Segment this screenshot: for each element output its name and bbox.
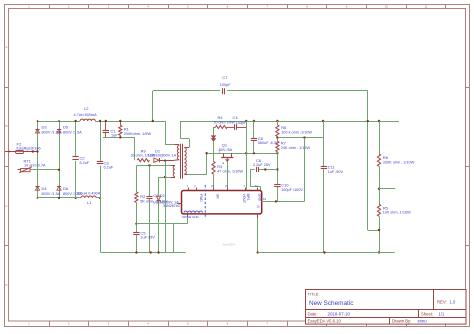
svg-text:2: 2	[194, 185, 196, 188]
svg-text:1uF 25V: 1uF 25V	[140, 236, 155, 240]
svg-text:R1: R1	[124, 127, 130, 132]
svg-text:1.0: 1.0	[450, 299, 456, 304]
svg-text:100pF: 100pF	[236, 121, 246, 125]
svg-text:1,US1M(800V, 1A: 1,US1M(800V, 1A	[148, 154, 177, 158]
svg-text:23: 23	[211, 185, 214, 188]
svg-text:11: 11	[424, 4, 427, 8]
svg-text:800V /1.5A: 800V /1.5A	[42, 192, 61, 196]
svg-text:Sheet:: Sheet:	[421, 311, 433, 316]
svg-text:800V /1.5A: 800V /1.5A	[63, 131, 82, 135]
svg-text:24K ohm , 1/16W: 24K ohm , 1/16W	[281, 146, 311, 150]
svg-text:VOUT: VOUT	[242, 194, 246, 203]
svg-text:100pF: 100pF	[220, 83, 231, 87]
svg-text:FWD: FWD	[199, 194, 203, 202]
svg-text:srinu: srinu	[418, 319, 428, 324]
svg-text:R8: R8	[383, 155, 389, 160]
svg-text:D5: D5	[63, 125, 69, 130]
svg-text:Date:: Date:	[308, 311, 318, 316]
svg-text:INN2674C: INN2674C	[164, 204, 181, 208]
svg-text:D3: D3	[42, 125, 48, 130]
svg-text:D2: D2	[160, 193, 166, 198]
svg-text:15: 15	[256, 204, 260, 208]
svg-text:1/1: 1/1	[439, 311, 445, 316]
svg-text:4.7uH 600mA: 4.7uH 600mA	[74, 113, 98, 117]
svg-text:800V /1.5A: 800V /1.5A	[42, 131, 61, 135]
svg-text:2018-07-10: 2018-07-10	[328, 311, 351, 316]
svg-text:100 ohm, 1/16W: 100 ohm, 1/16W	[383, 211, 411, 215]
svg-text:BPS: BPS	[246, 194, 250, 202]
svg-text:6.2uF: 6.2uF	[104, 166, 114, 170]
svg-text:5: 5	[187, 322, 189, 326]
svg-text:4: 4	[244, 185, 246, 188]
svg-text:EasyEDA V5.6.10: EasyEDA V5.6.10	[308, 319, 342, 324]
svg-text:RT1: RT1	[24, 158, 32, 163]
svg-text:L1: L1	[87, 200, 92, 205]
svg-text:10: 10	[385, 4, 389, 8]
svg-text:Drawn By:: Drawn By:	[392, 319, 411, 324]
svg-text:EasyEDA: EasyEDA	[223, 242, 236, 246]
svg-text:2.2uF 25V: 2.2uF 25V	[253, 163, 271, 167]
svg-text:6.2uF: 6.2uF	[80, 161, 90, 165]
svg-text:SD/SR GND: SD/SR GND	[182, 215, 200, 219]
svg-text:100uH 0.490A: 100uH 0.490A	[76, 191, 101, 195]
svg-text:200Kohm, 1/8W: 200Kohm, 1/8W	[124, 132, 152, 136]
svg-text:1: 1	[28, 322, 30, 326]
svg-text:REV:: REV:	[437, 299, 447, 304]
svg-text:C4: C4	[233, 115, 239, 120]
svg-text:Q1: Q1	[222, 143, 228, 148]
svg-text:R7: R7	[281, 140, 287, 145]
svg-text:D4: D4	[42, 186, 48, 191]
svg-text:100 k ohm ,1/10W: 100 k ohm ,1/10W	[281, 131, 312, 135]
svg-text:C7: C7	[222, 75, 228, 80]
svg-text:4: 4	[147, 322, 149, 326]
svg-text:3: 3	[108, 322, 110, 326]
svg-text:fuseRg2(F396: fuseRg2(F396	[17, 147, 41, 151]
svg-text:New Schematic: New Schematic	[309, 300, 354, 307]
svg-text:4: 4	[222, 162, 224, 166]
svg-text:2: 2	[218, 150, 220, 154]
svg-text:A: A	[5, 45, 7, 49]
svg-text:1uF ,50V: 1uF ,50V	[328, 170, 344, 174]
svg-text:C11: C11	[328, 164, 336, 169]
svg-text:1: 1	[187, 185, 189, 188]
svg-text:R4: R4	[218, 115, 224, 120]
svg-text:R5: R5	[383, 205, 389, 210]
svg-text:B: B	[5, 124, 7, 128]
svg-text:330K ohm , 1/10W: 330K ohm , 1/10W	[383, 160, 415, 164]
svg-text:TITLE:: TITLE:	[308, 291, 320, 296]
svg-text:GND: GND	[257, 194, 261, 202]
svg-text:SR: SR	[215, 194, 219, 199]
svg-text:2: 2	[68, 322, 70, 326]
svg-text:60V /5A: 60V /5A	[219, 148, 233, 152]
svg-text:D6: D6	[63, 186, 69, 191]
svg-text:100pF /100V: 100pF /100V	[281, 188, 303, 192]
svg-text:R6: R6	[281, 125, 287, 130]
svg-text:47 ohm, 1/10W: 47 ohm, 1/10W	[217, 170, 243, 174]
svg-text:R2: R2	[140, 194, 146, 199]
svg-text:C: C	[5, 204, 8, 208]
svg-text:L2: L2	[84, 106, 89, 111]
svg-text:6: 6	[227, 322, 229, 326]
svg-text:D: D	[5, 283, 8, 287]
svg-text:19: 19	[263, 197, 267, 201]
svg-text:7: 7	[266, 322, 268, 326]
svg-text:20 ohm 1/8W: 20 ohm 1/8W	[214, 120, 236, 124]
svg-text:10 ohm 0.7A: 10 ohm 0.7A	[24, 164, 46, 168]
